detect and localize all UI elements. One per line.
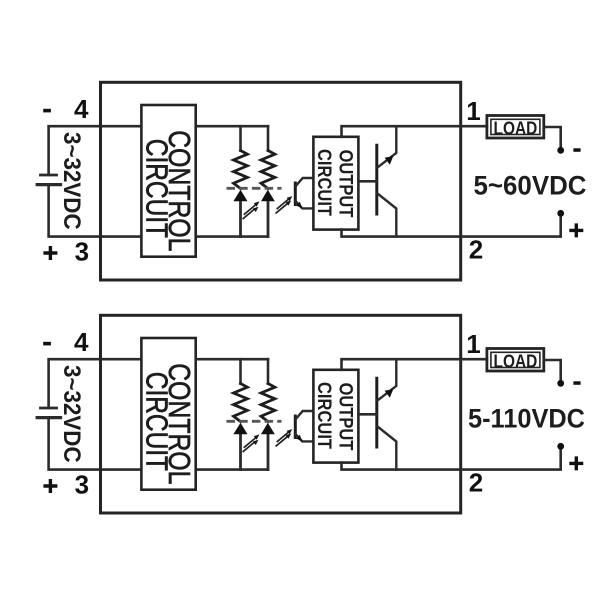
supply minus terminal dot: [557, 380, 564, 387]
phototransistor Q1 emitter lead: [295, 201, 313, 209]
output plus sign: [569, 223, 583, 237]
wire: output bottom rail (stub to supply +): [342, 449, 561, 470]
transistor Q4 emitter (to terminal 1): [378, 359, 397, 400]
svg-text:3~32VDC: 3~32VDC: [58, 365, 85, 463]
LED D4: [261, 423, 275, 435]
phototransistor Q1 emitter arrowhead: [296, 202, 302, 209]
wire: output top rail (stub to LOAD): [342, 126, 487, 137]
outer case box: [101, 82, 461, 280]
resistor R3: [234, 384, 248, 422]
svg-text:3: 3: [75, 469, 89, 499]
CONTROL CIRCUIT box: [141, 105, 195, 257]
capacitor C1 top plate: [41, 174, 57, 177]
svg-text:3~32VDC: 3~32VDC: [58, 132, 85, 230]
CONTROL CIRCUIT box: [141, 338, 195, 490]
svg-text:5-110VDC: 5-110VDC: [468, 403, 585, 433]
resistor R4: [261, 384, 275, 422]
resistor R2: [261, 151, 275, 189]
wire: LOAD to supply minus: [544, 127, 561, 147]
svg-text:4: 4: [74, 327, 89, 357]
svg-text:3: 3: [75, 236, 89, 266]
capacitor C2 top plate: [41, 407, 57, 410]
input minus sign: [43, 342, 51, 346]
svg-text:LOAD: LOAD: [494, 118, 538, 138]
wire: output top rail (stub to LOAD): [342, 359, 487, 370]
svg-text:1: 1: [466, 329, 480, 359]
LED D2: [261, 190, 275, 202]
wire: LED branch 1 drop: [239, 359, 242, 383]
output minus sign: [573, 148, 580, 152]
svg-text:2: 2: [469, 467, 483, 497]
phototransistor Q3 collector lead: [295, 411, 313, 420]
wire: input top rail (terminal 4 to LED branches): [49, 359, 268, 408]
resistor R1: [234, 151, 248, 189]
phototransistor Q3 emitter arrowhead: [296, 435, 302, 442]
wire: LED branch 2 return: [267, 201, 270, 237]
phototransistor Q3 base bar: [294, 416, 297, 438]
wire: input bottom rail (terminal 3 to LED branches): [49, 418, 268, 470]
light arrow pair into phototransistor: [276, 432, 288, 446]
phototransistor Q1 collector lead: [295, 178, 313, 187]
svg-text:CIRCUIT: CIRCUIT: [313, 382, 335, 449]
transistor Q2 base lead: [358, 180, 376, 183]
wire: LED branch 1 return: [239, 201, 242, 237]
svg-text:LOAD: LOAD: [494, 351, 538, 371]
dashed cathode bar across LEDs: [227, 420, 282, 423]
svg-text:CIRCUIT: CIRCUIT: [313, 149, 335, 216]
wire: LED branch 1 return: [239, 434, 242, 470]
svg-text:CIRCUIT: CIRCUIT: [139, 139, 172, 238]
dashed cathode bar across LEDs: [227, 187, 282, 190]
wire: LED branch 1 drop: [239, 126, 242, 150]
light arrow pair into phototransistor: [276, 199, 288, 213]
wire: input top rail (terminal 4 to LED branches): [49, 126, 268, 175]
LOAD box: [487, 349, 544, 372]
LOAD box: [487, 116, 544, 139]
LED D1: [233, 190, 247, 202]
transistor Q4 base lead: [358, 413, 376, 416]
transistor Q2 emitter (to terminal 1): [378, 126, 397, 167]
outer case box: [101, 315, 461, 513]
output plus sign: [569, 456, 583, 470]
supply plus terminal dot: [557, 210, 564, 217]
transistor Q2 emitter arrowhead: [385, 156, 394, 165]
wire: input bottom rail (terminal 3 to LED branches): [49, 185, 268, 237]
svg-text:CIRCUIT: CIRCUIT: [139, 372, 172, 471]
input minus sign: [43, 109, 51, 113]
transistor Q2 collector (to terminal 2): [378, 194, 397, 237]
wire: LED branch 2 drop: [267, 359, 270, 383]
supply minus terminal dot: [557, 147, 564, 154]
transistor Q4 base bar: [375, 378, 378, 447]
OUTPUT CIRCUIT box: [313, 137, 358, 230]
phototransistor Q3 emitter lead: [295, 434, 313, 442]
light arrow pair between LEDs: [243, 438, 255, 452]
svg-text:4: 4: [74, 94, 89, 124]
svg-text:OUTPUT: OUTPUT: [335, 383, 357, 451]
svg-text:1: 1: [466, 96, 480, 126]
wire: LOAD to supply minus: [544, 360, 561, 380]
capacitor C2 bottom plate: [37, 416, 60, 419]
OUTPUT CIRCUIT box: [313, 370, 358, 463]
capacitor C1 bottom plate: [37, 183, 60, 186]
input plus sign: [43, 479, 57, 493]
LED D3: [233, 423, 247, 435]
transistor Q4 collector (to terminal 2): [378, 427, 397, 470]
wire: output bottom rail (stub to supply +): [342, 216, 561, 237]
svg-text:OUTPUT: OUTPUT: [335, 150, 357, 218]
phototransistor Q1 base bar: [294, 183, 297, 205]
svg-text:2: 2: [469, 234, 483, 264]
supply plus terminal dot: [557, 443, 564, 450]
transistor Q4 emitter arrowhead: [385, 389, 394, 398]
svg-text:5~60VDC: 5~60VDC: [474, 170, 587, 200]
wire: LED branch 2 return: [267, 434, 270, 470]
wire: LED branch 2 drop: [267, 126, 270, 150]
output minus sign: [573, 381, 580, 385]
light arrow pair between LEDs: [243, 205, 255, 219]
input plus sign: [43, 246, 57, 260]
transistor Q2 base bar: [375, 145, 378, 214]
